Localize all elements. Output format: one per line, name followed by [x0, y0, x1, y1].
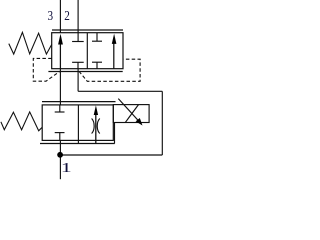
pilot line right (dashed, net 2 to V1 right end) — [79, 59, 140, 81]
valve V2 left cell blocked port T top — [59, 105, 61, 112]
solenoid M1 diagonal — [125, 105, 138, 123]
valve V1 left cell flow arrow — [59, 43, 61, 69]
spring S2 (bottom valve, left) — [1, 112, 42, 131]
wire port 1 line — [59, 140, 61, 179]
valve V1 left cell blocked port T top — [72, 41, 84, 43]
svg-text:1: 1 — [61, 161, 72, 176]
solenoid M1 lower edge extension — [114, 123, 116, 144]
valve V2 proportional line bottom — [40, 143, 115, 145]
pilot line left (dashed, net 3 to V1 left end) — [33, 58, 60, 81]
solenoid M1 (proportional) box — [113, 105, 149, 123]
valve V1 envelope (top compensator, 2 positions) — [52, 33, 123, 69]
spring S1 (top valve, left) — [9, 32, 52, 54]
valve V2 restrictor arcs — [92, 119, 95, 134]
valve V1 right cell flow arrow — [113, 40, 115, 69]
wire net 1 wrap line (V1 bottom to port 1) — [77, 69, 79, 92]
valve V1 proportional line top — [52, 29, 123, 31]
valve V1 right cell blocked port T bottom — [96, 62, 98, 68]
svg-text:3: 3 — [48, 8, 54, 23]
junction node port 1 — [57, 152, 63, 158]
valve V2 proportional line top — [42, 101, 116, 103]
wire net 3 mid (down to bottom valve) — [59, 69, 61, 105]
valve V1 right cell blocked port T top — [96, 33, 98, 42]
valve V2 position divider — [77, 105, 79, 144]
valve V1 left cell blocked port T bottom — [72, 61, 84, 63]
wire port 3 line (net 3) — [59, 0, 61, 33]
solenoid M1 proportional arrow — [118, 99, 138, 121]
wire port 2 line (net 2) — [77, 0, 79, 42]
valve V2 right cell flow arrow with restrictor — [95, 113, 97, 144]
valve V1 position divider — [86, 33, 88, 69]
svg-text:2: 2 — [64, 8, 70, 23]
valve V1 proportional line bottom — [48, 71, 122, 73]
valve V2 left cell blocked port T bottom — [55, 132, 65, 134]
valve V2 envelope (bottom proportional throttle, 2 positions) — [42, 105, 113, 140]
